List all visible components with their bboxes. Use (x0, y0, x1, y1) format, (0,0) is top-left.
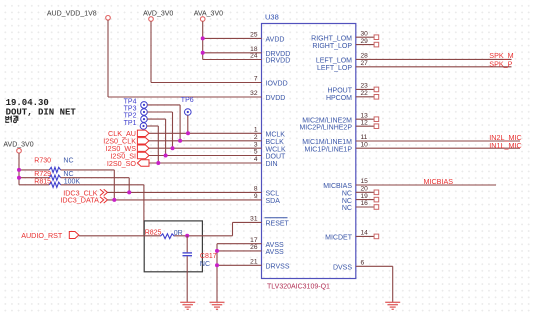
svg-text:7: 7 (254, 76, 258, 83)
svg-text:LEFT_LOP: LEFT_LOP (317, 65, 352, 72)
pin 1 MCLK (left) (254, 127, 285, 139)
wire pin 23 stub (356, 88, 375, 90)
pin 27 LEFT_LOP (right) (317, 60, 368, 72)
pin 20 NC (right) (342, 186, 368, 198)
pin 10 MIC1P/LINE1P (right) (305, 141, 369, 153)
wire DRVSS pin21 (217, 264, 262, 266)
pin 4 DIN (left) (254, 156, 278, 168)
U38 part value TLV320AIC3109-Q1 (267, 284, 330, 291)
pin 29 RIGHT_LOP (right) (312, 38, 368, 50)
wire pin 14 stub (356, 235, 375, 237)
wire I2S0_CLK to IC (149, 140, 262, 142)
node junction AVA-DRVDD (201, 51, 205, 55)
svg-text:TLV320AIC3109-Q1: TLV320AIC3109-Q1 (267, 284, 330, 291)
U38 reference designator (265, 13, 279, 22)
wire I2S0_SO to IC (149, 162, 262, 164)
node junction TP6-MCLK (186, 131, 190, 135)
port IDC3_DATA (60, 196, 107, 205)
pin 17 AVSS (left) (250, 237, 284, 249)
test point TP3 (124, 106, 148, 116)
pin 3 WCLK (left) (254, 141, 286, 153)
svg-text:SCL: SCL (266, 191, 280, 198)
svg-text:MCLK: MCLK (266, 132, 286, 139)
net label MICBIAS (424, 177, 454, 186)
svg-text:2: 2 (254, 134, 258, 141)
svg-text:TP2: TP2 (124, 113, 137, 120)
wire LEFT_LOM (356, 58, 512, 60)
test point TP1 (124, 120, 147, 130)
wire DVSS pin6 (356, 266, 393, 302)
svg-text:28: 28 (361, 53, 369, 60)
no-connect square pin 12 (374, 124, 379, 129)
wire TP1 to DIN (147, 126, 159, 163)
svg-text:17: 17 (250, 237, 258, 244)
power symbol AUD_VDD_1V8 (47, 10, 110, 20)
svg-text:TP4: TP4 (124, 99, 137, 106)
pin 25 AVDD (left) (250, 32, 284, 44)
svg-text:NC: NC (342, 205, 352, 212)
svg-text:MIC2P/LINHE2P: MIC2P/LINHE2P (299, 124, 352, 131)
wire TP3 to WCLK (147, 112, 172, 148)
pin 2 BCLK (left) (254, 134, 284, 146)
wire AVA_3V0 vertical (202, 21, 204, 59)
svg-text:13: 13 (361, 112, 369, 119)
svg-text:RIGHT_LOP: RIGHT_LOP (312, 43, 352, 50)
svg-text:25: 25 (250, 32, 258, 39)
pin 5 DOUT (left) (254, 149, 286, 161)
capacitor C817 NC (183, 236, 217, 302)
svg-text:19.04.30: 19.04.30 (6, 98, 49, 108)
wire TP4 to BCLK (147, 105, 180, 141)
power symbol AVD_3V0 (top) (143, 10, 173, 21)
wire AVD_3V0 to IOVDD (151, 21, 262, 82)
ground (C817) (180, 302, 195, 309)
svg-text:AVD_3V0: AVD_3V0 (143, 10, 173, 17)
node junction TP1-DIN (156, 161, 160, 165)
svg-text:AVSS: AVSS (266, 242, 284, 249)
net label SPK_M (489, 51, 513, 60)
svg-text:AVD_3V0: AVD_3V0 (3, 142, 33, 149)
svg-text:24: 24 (250, 53, 258, 60)
pin 23 HPOUT (right) (328, 83, 369, 95)
svg-text:RESET: RESET (266, 221, 290, 228)
pin 21 DRVSS (left) (250, 259, 290, 271)
wire R815 to reset net (143, 185, 145, 236)
op-amp U38 codec IC body TLV320AIC3109-Q1 (262, 24, 356, 279)
wire SCL (108, 191, 262, 193)
svg-text:31: 31 (250, 216, 258, 223)
wire CLK_AU to IC (149, 132, 262, 134)
wire MIC1M IN2L_MIC (356, 140, 520, 142)
svg-text:TP6: TP6 (181, 97, 194, 104)
wire AVD_3V0 vertical (18, 153, 20, 185)
svg-text:AVSS: AVSS (266, 249, 284, 256)
svg-text:NC: NC (342, 198, 352, 205)
wire pin 12 stub (356, 125, 375, 127)
resistor R825 0R (145, 229, 183, 238)
node junction AVD-R729 (17, 176, 21, 180)
wire pin 22 stub (356, 96, 375, 98)
power symbol AVA_3V0 (194, 10, 223, 21)
pin 31 RESET (left) (250, 216, 289, 228)
node junction R730-SDA (112, 198, 116, 202)
svg-text:29: 29 (361, 38, 369, 45)
no-connect square pin 29 (374, 42, 379, 47)
svg-text:12: 12 (361, 119, 369, 126)
svg-text:TP1: TP1 (124, 120, 137, 127)
pin 16 NC (right) (342, 200, 368, 212)
svg-text:NC: NC (63, 157, 73, 164)
svg-text:HPOUT: HPOUT (328, 88, 353, 95)
pin 9 SDA (left) (254, 193, 280, 205)
wire pin 16 stub (356, 206, 375, 208)
node junction AVSS26 (215, 249, 219, 253)
pin 12 MIC2P/LINHE2P (right) (299, 119, 368, 131)
pin 22 HPCOM (right) (326, 90, 368, 102)
svg-text:BCLK: BCLK (266, 139, 285, 146)
pin 19 NC (right) (342, 193, 368, 205)
pin 32 DVDD (left) (250, 90, 285, 102)
pin 24 DRVDD (left) (250, 53, 290, 65)
wire AVSS pin17 (217, 243, 262, 245)
no-connect square pin 23 (374, 87, 379, 92)
svg-text:22: 22 (361, 90, 369, 97)
annotation date 19.04.30 (6, 98, 49, 108)
svg-text:U38: U38 (265, 13, 279, 22)
svg-text:26: 26 (250, 244, 258, 251)
test point TP6 (181, 97, 194, 115)
wire DRVDD pin18 (203, 52, 262, 54)
svg-text:DIN: DIN (266, 161, 278, 168)
svg-text:MICDET: MICDET (325, 235, 353, 242)
svg-text:MIC1M/LINE1M: MIC1M/LINE1M (302, 139, 352, 146)
svg-text:9: 9 (254, 193, 258, 200)
annotation DOUT DIN NET (6, 108, 77, 118)
svg-text:20: 20 (361, 186, 369, 193)
annotation hangul byeon-gyeong (6, 116, 18, 123)
svg-text:NC: NC (200, 261, 210, 268)
svg-text:5: 5 (254, 149, 258, 156)
net label IN1L_MIC (489, 141, 521, 150)
svg-text:R730: R730 (34, 157, 51, 164)
port I2S0_SO (107, 159, 149, 168)
pin 28 LEFT_LOM (right) (316, 53, 368, 65)
no-connect square pin 30 (374, 35, 379, 40)
svg-text:30: 30 (361, 30, 369, 37)
node junction R729-SCL (127, 190, 131, 194)
no-connect square pin 13 (374, 117, 379, 122)
svg-text:DRVDD: DRVDD (266, 58, 291, 65)
svg-text:MIC1P/LINE1P: MIC1P/LINE1P (305, 146, 353, 153)
pin 13 MIC2M/LINE2M (right) (302, 112, 368, 124)
wire MICBIAS (356, 184, 496, 186)
test point TP4 (124, 99, 148, 109)
svg-text:IN1L_MIC: IN1L_MIC (489, 141, 521, 150)
svg-text:14: 14 (361, 230, 369, 237)
svg-text:21: 21 (250, 259, 258, 266)
svg-text:32: 32 (250, 90, 258, 97)
resistor R730 NC (19, 157, 114, 172)
pin 18 DRVDD (left) (250, 46, 290, 58)
svg-text:DOUT: DOUT (266, 154, 287, 161)
svg-text:IDC3_DATA: IDC3_DATA (60, 196, 99, 205)
ground (DVSS) (385, 302, 400, 309)
svg-text:HPCOM: HPCOM (326, 95, 352, 102)
wire R825 to RESET pin31 (174, 222, 261, 235)
svg-text:MIC2M/LINE2M: MIC2M/LINE2M (302, 117, 352, 124)
node junction AVA-AVDD (201, 36, 205, 40)
wire AUDIO_RST to R825 (79, 235, 161, 237)
svg-text:6: 6 (361, 260, 365, 267)
pin 7 IOVDD (left) (254, 76, 288, 88)
svg-text:AVA_3V0: AVA_3V0 (194, 10, 223, 17)
svg-text:WCLK: WCLK (266, 146, 287, 153)
wire pin 30 stub (356, 36, 375, 38)
svg-text:SDA: SDA (266, 198, 281, 205)
svg-text:19: 19 (361, 193, 369, 200)
port IDC3_CLK (63, 188, 107, 197)
no-connect square pin 16 (374, 205, 379, 210)
node junction DRVSS21 (215, 263, 219, 267)
ground (AVSS/DRVSS) (210, 302, 225, 309)
port I2S0_CLK (103, 137, 149, 146)
pin 11 MIC1M/LINE1M (right) (302, 134, 367, 146)
group box (RC on reset) (144, 221, 202, 272)
port CLK_AU (108, 129, 149, 138)
pin 14 MICDET (right) (325, 230, 368, 242)
no-connect square pin 22 (374, 95, 379, 100)
svg-text:DVSS: DVSS (333, 265, 352, 272)
resistor R815 100K (19, 179, 144, 188)
svg-text:11: 11 (361, 134, 368, 141)
svg-text:C817: C817 (200, 253, 217, 260)
wire I2S0_SI to IC (149, 155, 262, 157)
power symbol AVD_3V0 (left) (3, 142, 33, 153)
svg-text:TP3: TP3 (124, 106, 137, 113)
svg-text:10: 10 (361, 141, 369, 148)
port I2S0_SI (110, 151, 149, 160)
wire AVSS pin26 (217, 250, 262, 252)
svg-text:15: 15 (361, 178, 369, 185)
wire R730 to SDA (113, 170, 115, 200)
node junction TP3-WCLK (171, 146, 175, 150)
node junction TP2-DOUT (164, 154, 168, 158)
pin 6 DVSS (right) (333, 260, 365, 272)
svg-text:SPK_P: SPK_P (489, 60, 512, 69)
svg-text:R825: R825 (145, 229, 162, 236)
svg-text:27: 27 (361, 60, 369, 67)
pin 8 SCL (left) (254, 186, 279, 198)
svg-text:LEFT_LOM: LEFT_LOM (316, 58, 352, 65)
resistor R729 NC (19, 171, 129, 180)
svg-text:DVDD: DVDD (266, 95, 286, 102)
port I2S0_WS (106, 144, 149, 153)
wire DRVDD pin24 (203, 59, 262, 61)
no-connect square pin 19 (374, 197, 379, 202)
svg-text:MICBIAS: MICBIAS (323, 183, 352, 190)
svg-text:DRVSS: DRVSS (266, 264, 290, 271)
wire MIC1P IN1L_MIC (356, 147, 520, 149)
svg-text:3: 3 (254, 141, 258, 148)
wire AVSS ground vertical (216, 244, 218, 303)
net label SPK_P (489, 60, 512, 69)
svg-text:IOVDD: IOVDD (266, 81, 288, 88)
wire AUD_VDD_1V8 to DVDD (108, 20, 262, 97)
svg-text:23: 23 (361, 83, 369, 90)
svg-text:1: 1 (254, 127, 258, 134)
wire pin 29 stub (356, 44, 375, 46)
svg-text:I2S0_SO: I2S0_SO (107, 159, 137, 168)
wire TP2 to DOUT (147, 119, 165, 155)
node junction TP4-BCLK (178, 139, 182, 143)
wire LEFT_LOP (356, 66, 512, 68)
svg-text:NC: NC (342, 191, 352, 198)
svg-text:RIGHT_LOM: RIGHT_LOM (311, 35, 352, 42)
net label IN2L_MIC (489, 133, 521, 142)
pin 30 RIGHT_LOM (right) (311, 30, 368, 42)
wire R729 to SCL (128, 178, 130, 193)
wire I2S0_WS to IC (149, 147, 262, 149)
no-connect square pin 20 (374, 190, 379, 195)
port AUDIO_RST (21, 231, 79, 240)
node junction R825-C817 (185, 234, 189, 238)
wire pin 20 stub (356, 191, 375, 193)
svg-text:AUD_VDD_1V8: AUD_VDD_1V8 (47, 10, 97, 17)
wire SDA (108, 199, 262, 201)
wire pin 13 stub (356, 118, 375, 120)
wire pin 19 stub (356, 199, 375, 201)
node junction AVD-R730 (17, 168, 21, 172)
pin 15 MICBIAS (right) (323, 178, 368, 190)
pin 26 AVSS (left) (250, 244, 284, 256)
no-connect square pin 14 (374, 234, 379, 239)
wire TP6 to MCLK (187, 115, 189, 133)
svg-text:AUDIO_RST: AUDIO_RST (21, 231, 63, 240)
svg-text:16: 16 (361, 200, 369, 207)
svg-text:4: 4 (254, 156, 258, 163)
wire AVDD pin25 (203, 37, 262, 39)
test point TP2 (124, 113, 148, 123)
svg-text:8: 8 (254, 186, 258, 193)
svg-text:AVDD: AVDD (266, 37, 285, 44)
svg-text:MICBIAS: MICBIAS (424, 177, 454, 186)
